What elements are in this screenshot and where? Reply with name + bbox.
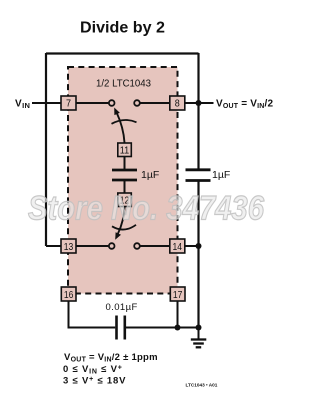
svg-text:0 ≤ VIN ≤ V+: 0 ≤ VIN ≤ V+ <box>63 364 123 376</box>
switch S2 travel arc <box>112 225 136 230</box>
svg-text:17: 17 <box>173 290 183 301</box>
svg-text:1/2 LTC1043: 1/2 LTC1043 <box>96 79 151 90</box>
svg-text:Divide by 2: Divide by 2 <box>80 20 165 37</box>
wire outer right vertical (output cap to ground) <box>197 181 199 328</box>
switch S1 travel arc <box>112 120 137 124</box>
wire pin8 to output node <box>185 102 214 104</box>
wire C1 to pin12 <box>124 181 126 193</box>
wire outer top <box>46 52 199 54</box>
wire VIN lead <box>32 102 61 104</box>
switch S2 bottom contact right <box>134 243 140 249</box>
wire pin11 to C1 <box>124 157 126 170</box>
svg-text:VOUT = VIN/2 ± 1ppm: VOUT = VIN/2 ± 1ppm <box>64 352 158 364</box>
pin 13 <box>61 239 76 253</box>
node pin14 junction <box>196 243 202 249</box>
svg-text:LTC1043 • A01: LTC1043 • A01 <box>186 383 218 388</box>
switch S1 arrowhead <box>114 108 120 116</box>
wire pin7 to left contact <box>76 102 108 104</box>
wire outer right vertical (top to output cap) <box>197 53 199 169</box>
svg-text:14: 14 <box>173 242 183 253</box>
pin 8 <box>170 96 185 110</box>
pin 12 <box>118 193 132 207</box>
wire pin14 to right vertical <box>185 245 199 247</box>
pin 11 <box>118 143 132 157</box>
capacitor C3 0.01uF left plate <box>115 316 118 340</box>
switch S1 wiper arm <box>117 113 125 144</box>
wire C3 to ground node <box>126 327 199 329</box>
svg-text:3 ≤ V+ ≤ 18V: 3 ≤ V+ ≤ 18V <box>63 376 126 387</box>
pin 17 <box>170 287 185 301</box>
svg-text:16: 16 <box>64 290 74 301</box>
wire pin17 drop <box>177 301 179 328</box>
svg-text:VIN: VIN <box>15 98 30 110</box>
node pin17 junction <box>175 325 181 331</box>
switch S2 bottom contact left <box>109 243 115 249</box>
pin 16 <box>61 287 76 301</box>
wire pin16 drop <box>69 301 116 328</box>
wire pin13 to outer left <box>46 245 61 247</box>
pin 7 <box>61 96 76 110</box>
svg-text:VOUT = VIN/2: VOUT = VIN/2 <box>216 98 274 110</box>
switch S2 wiper arm <box>118 207 125 235</box>
node output junction <box>196 100 202 106</box>
svg-text:11: 11 <box>120 146 130 157</box>
ground symbol <box>191 328 207 348</box>
wire outer left vertical (pin13 to top) <box>45 53 47 246</box>
pin 14 <box>170 239 185 253</box>
svg-text:8: 8 <box>175 99 180 110</box>
switch S1 top contact left <box>109 100 115 106</box>
svg-text:0.01µF: 0.01µF <box>106 302 138 313</box>
svg-text:13: 13 <box>64 242 74 253</box>
switch S2 arrowhead <box>115 232 121 240</box>
switch S1 top contact right <box>134 100 140 106</box>
svg-text:1µF: 1µF <box>141 169 159 181</box>
svg-text:Store No. 347436: Store No. 347436 <box>28 190 265 228</box>
wire pin13 to left contact <box>76 245 108 247</box>
wire right contact to pin14 <box>140 245 170 247</box>
svg-text:7: 7 <box>66 99 71 110</box>
LTC1043 dashed package outline with pink fill <box>68 67 178 294</box>
capacitor C1 1uF flying bottom plate <box>112 179 137 182</box>
svg-text:1µF: 1µF <box>212 169 230 181</box>
capacitor C2 1uF output bottom plate <box>186 179 211 182</box>
capacitor C1 1uF flying top plate <box>112 169 137 172</box>
wire right contact to pin8 <box>140 102 170 104</box>
capacitor C3 0.01uF right plate <box>124 316 127 340</box>
node ground junction <box>196 325 202 331</box>
capacitor C2 1uF output top plate <box>186 168 211 171</box>
